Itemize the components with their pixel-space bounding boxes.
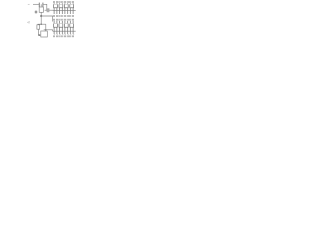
- wire: [38, 23, 46, 25]
- node label dash: [28, 3, 30, 5]
- package X1 stubs below bus2: [54, 31, 58, 34]
- node B junction: [45, 29, 46, 30]
- package X1 section B: [54, 21, 58, 31]
- crystal Y1 body: [39, 7, 43, 12]
- package X4 section A: [70, 3, 74, 10]
- package X4 section B: [70, 21, 74, 31]
- wire: [41, 16, 52, 22]
- node D junction: [38, 34, 40, 36]
- right block: 4 columns of stacked packages: [53, 3, 76, 34]
- package X2 section B: [59, 21, 63, 31]
- bus wire bottom: [53, 30, 76, 32]
- wire top rail: [33, 3, 39, 5]
- pin labels bottom row: [53, 35, 74, 37]
- pin labels top row: [53, 1, 74, 3]
- pin labels mid row 2: [53, 19, 74, 21]
- wire: [43, 4, 46, 10]
- IC U1 body: [41, 31, 48, 37]
- capacitor C2 plate: [42, 3, 44, 7]
- package X2 stubs below bus2: [59, 31, 63, 34]
- package X4 stubs below bus2: [70, 31, 74, 34]
- package X1 section A: [54, 3, 58, 10]
- wire: [40, 16, 42, 24]
- wire: [45, 9, 47, 11]
- node C junction: [40, 23, 42, 25]
- node A junction: [40, 15, 42, 17]
- package X3 section B: [64, 21, 68, 31]
- capacitor C1 plate: [38, 3, 40, 7]
- wire: [49, 9, 53, 11]
- wire: [38, 29, 40, 35]
- package X3 stubs below bus2: [65, 31, 69, 34]
- wire: [37, 23, 39, 25]
- crystal Y1 lead: [40, 4, 42, 6]
- capacitor C3 plates: [46, 8, 48, 12]
- bus wire top: [53, 9, 76, 11]
- package X3 pins below bus1: [65, 10, 68, 14]
- pin labels mid row 1: [53, 15, 74, 17]
- crystal Y1 lead: [40, 12, 42, 16]
- package X2 section A: [59, 3, 63, 10]
- ground symbol mark: [35, 11, 38, 14]
- package X2 pins below bus1: [60, 10, 63, 14]
- pin number text rows (digit tick marks): [53, 1, 74, 37]
- package X3 section A: [64, 3, 68, 10]
- package X1 pins below bus1: [54, 10, 57, 14]
- resistor R1 body: [37, 25, 40, 29]
- wire: [44, 30, 53, 31]
- wire: [45, 24, 47, 31]
- package X4 pins below bus1: [70, 10, 73, 14]
